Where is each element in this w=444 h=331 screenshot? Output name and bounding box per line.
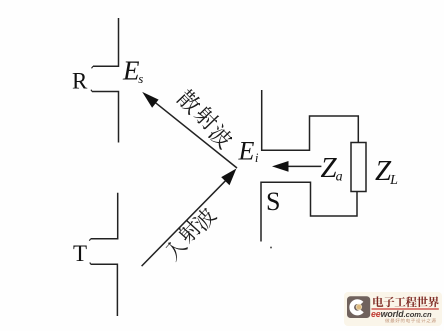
svg-text:eeworld.com.cn: eeworld.com.cn xyxy=(371,309,432,319)
text incident-wave (ru she bo) rotated xyxy=(162,235,189,262)
Za arrow shaft xyxy=(288,165,321,167)
logo background tint xyxy=(344,292,442,326)
logo tagline xyxy=(385,318,389,322)
logo icon hole xyxy=(356,304,362,310)
stray dot xyxy=(270,247,272,249)
tick R upper stub end xyxy=(92,66,94,68)
text scattered-wave (san she bo) rotated xyxy=(175,87,204,116)
svg-text:R: R xyxy=(72,69,88,94)
svg-text:T: T xyxy=(73,241,87,266)
antenna S: upper arm and loop to load xyxy=(262,90,359,150)
antenna R: lower feed line xyxy=(92,92,119,143)
scattered wave arrow shaft xyxy=(150,98,237,168)
tick R lower stub end xyxy=(91,90,92,92)
logo title dianzi gongcheng shijie xyxy=(373,296,383,307)
antenna T: upper feed line xyxy=(91,193,118,239)
tick T lower stub end xyxy=(90,263,91,265)
incident wave arrowhead xyxy=(221,169,236,186)
logo red underline xyxy=(372,308,439,309)
antenna S: lower arm and loop to load xyxy=(261,182,357,241)
logo icon tan dot xyxy=(357,305,361,309)
scattered wave arrowhead xyxy=(142,92,158,108)
antenna R: upper feed line xyxy=(93,18,119,66)
tick T upper stub end xyxy=(89,239,91,241)
svg-text:S: S xyxy=(266,187,280,216)
incident wave arrow shaft xyxy=(142,178,228,266)
antenna T: lower feed line xyxy=(91,264,118,316)
logo icon white C xyxy=(352,302,362,313)
logo icon rounded square xyxy=(347,296,370,318)
Za arrowhead xyxy=(272,161,289,172)
load resistor ZL box xyxy=(351,143,366,192)
